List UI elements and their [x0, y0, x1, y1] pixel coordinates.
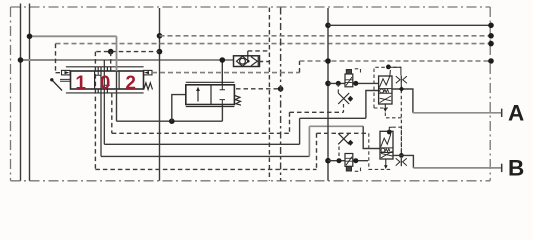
node junction (171.8,121.2): [169, 118, 175, 124]
node junction (328,160.7): [325, 158, 331, 164]
wire A-feed line y=144.3: [104, 143, 299, 145]
wire gray dashed y=35.8 to right edge: [160, 35, 492, 37]
svg-text:2: 2: [125, 73, 136, 94]
port tick A: [501, 109, 503, 117]
PRV1 internal row lines: [379, 89, 392, 94]
wire dashed stub RV1: [355, 69, 361, 75]
orifice O2 left caret: [396, 158, 400, 165]
wire CV1 top port: [247, 51, 249, 61]
relief valve RV2 solenoid tab: [346, 167, 351, 172]
valve V2 plate line bottom: [186, 106, 235, 108]
valve V2 spring: [235, 96, 241, 106]
node junction (491,43.6): [488, 41, 494, 47]
PRV1 internal spring: [379, 70, 390, 88]
relief valve RV1 internals: [345, 80, 353, 83]
PRV2 internal ball circle: [381, 148, 385, 152]
top assembly: wire black y=83.4: [328, 82, 379, 84]
relief valve RV1 mini body: [345, 74, 353, 87]
wire port stub x=98.2 below: [97, 89, 99, 93]
node junction (222.3,60): [220, 57, 226, 63]
wire dashed y=133.3 right segment: [317, 132, 369, 134]
wire gray dashed y=43.6 pilot supply: [56, 43, 492, 45]
orifice O2 right caret: [403, 158, 407, 165]
valve V1 left pilot solenoid arrow: [65, 71, 70, 74]
test point X1 coupling diamond: [348, 96, 354, 102]
valve V2 blocked stub bottom: [220, 100, 225, 105]
PRV2 internal hatch: [381, 151, 392, 157]
node junction (159.5,51.6): [157, 49, 163, 55]
wire black line y=25.3: [328, 24, 491, 26]
svg-text:1: 1: [75, 73, 86, 94]
bottom assembly: wire black y=160.7: [328, 160, 368, 162]
valve V2 body 2/2 way valve: [186, 85, 235, 105]
wire dashed drain PRV1: [400, 84, 402, 156]
valve V1 left pilot box: [62, 70, 71, 75]
node pin inside CV1: [247, 60, 250, 63]
wire dashed vertical to left pilot of valve V1: [56, 44, 62, 73]
valve V1 manual lever: [52, 80, 62, 91]
PRV2 body: [380, 131, 393, 159]
PRV1 internal ball circle: [380, 89, 384, 93]
enclosure boundary bottom: [11, 180, 491, 182]
svg-text:B: B: [508, 156, 524, 181]
wire valve V2 bottom port: [221, 105, 223, 122]
wire A output line from PRV1: [392, 89, 413, 113]
enclosure boundary right: [489, 7, 491, 181]
node junction (159.5,35.8): [157, 33, 163, 39]
check valve CV1 seat bar: [257, 57, 259, 66]
wire dashed PRV2 pilot: [392, 127, 401, 155]
relief valve RV2 mini body: [345, 154, 353, 167]
valve V1 body 4/3 directional valve: [71, 71, 144, 89]
wire port stub x=98.2 above: [97, 67, 99, 72]
valve V1 blocked port stub top: [96, 72, 101, 76]
wire A-feed rise x=365.9 into reducing valve: [366, 91, 379, 119]
node junction (20.5,60): [18, 57, 24, 63]
orifice O2 bar: [400, 158, 402, 166]
PRV1 drain arrow: [384, 104, 386, 110]
node PRV1 pilot tap: [386, 65, 391, 70]
node junction (328,25.3): [325, 23, 331, 29]
wire dashed rise x=289.5: [289, 112, 291, 133]
wire B output line: [393, 155, 413, 168]
test coupling diamond on A output: [399, 86, 404, 91]
valve V1 right pilot box: [144, 70, 153, 75]
wire gray A line: [413, 112, 502, 114]
wire black dashed y=51.6: [96, 51, 159, 53]
wire dashed y=133.3 left segment: [112, 132, 290, 134]
wire A-feed line y=118.3: [300, 117, 366, 119]
svg-text:0: 0: [100, 73, 111, 94]
wire dashed test line y=111.1: [290, 111, 344, 113]
pressure reducing valve PRV1 dashed pilot box: [374, 67, 401, 108]
pressure reducing valve PRV1 body: [379, 76, 392, 104]
relief valve RV1 solenoid tab: [346, 70, 351, 75]
test point X1 dashed drop: [337, 83, 339, 93]
node junction (358,83.4): [353, 81, 358, 86]
relief valve RV2 internals: [345, 158, 353, 161]
node junction (491,61): [488, 58, 494, 64]
valve V1 sandwich plate line bottom: [66, 92, 144, 94]
PRV2 drain arrow: [385, 159, 387, 167]
PRV2 internal row lines: [380, 148, 393, 153]
valve V2 cell divider: [210, 85, 212, 105]
wire B-feed line y=157.3: [101, 155, 309, 157]
node junction (328,83.4): [325, 81, 331, 87]
wire dashed drop x=316.5: [316, 133, 318, 169]
wire drain line y=121.2: [117, 120, 223, 122]
pressure reducing valve PRV2 dashed pilot box: [369, 133, 392, 169]
wire pilot dashed y=72.5 from V1 right pilot: [152, 72, 300, 74]
wire port stub x=107.4 below: [106, 89, 108, 93]
check valve CV1 body: [234, 56, 260, 67]
node junction (328,61): [325, 58, 331, 64]
valve V1 lever bracket lines: [60, 79, 71, 81]
orifice O1 left caret: [396, 76, 400, 83]
valve V2 plate line top: [186, 81, 235, 83]
check valve CV1 seat arrow: [251, 57, 257, 66]
wire valve V2 top port: [221, 60, 223, 85]
node junction (339,160.7): [337, 158, 342, 163]
PRV2 internal spring: [381, 132, 391, 146]
wire dashed CV1 pilot y=50.9: [248, 50, 270, 52]
wire vertical pilot supply x=159.5: [159, 8, 161, 181]
wire dashed x=111.8 under valve V1: [111, 93, 113, 133]
wire B-feed drop x=363.2 into bottom reducing valve: [363, 126, 380, 148]
wire port line x=104.3 from gray bus down through valve: [103, 60, 105, 144]
valve V1 cell divider left: [94, 71, 96, 89]
check valve CV1 diamond: [237, 56, 249, 66]
svg-text:A: A: [508, 101, 524, 126]
wire pilot L to orifice: [388, 67, 401, 75]
enclosure boundary left: [10, 7, 12, 181]
orifice O1 right caret: [403, 76, 407, 83]
test point X2 coupling diamond: [348, 140, 354, 146]
port tick B: [501, 164, 503, 172]
valve V1 blocked port stub bottom: [105, 85, 110, 89]
wire dashed PRV1 drain L: [385, 113, 401, 118]
wire P supply vertical x=20.5: [20, 4, 22, 181]
wire valve V2 pilot dashed y=88.8: [236, 88, 281, 90]
test point X2 dashed rise: [338, 147, 340, 160]
wire gray line y=60: [21, 59, 234, 61]
valve V1 right pilot solenoid arrow: [144, 71, 149, 74]
valve V2 blocked stub top: [220, 85, 225, 90]
PRV1 internal hatch: [380, 96, 391, 103]
check valve CV1 ball: [240, 58, 246, 64]
wire B-feed rise x=309.4: [308, 126, 310, 156]
wire dashed pilot x=110.7 down to valve V1: [110, 52, 112, 72]
node junction (280.6,88.8): [278, 86, 284, 92]
wire dashed drain y=168.6: [95, 168, 316, 170]
wire gray line y=36.3 to port B of valve V1: [30, 35, 117, 37]
wire T return vertical x=29.5: [29, 4, 31, 181]
wire dashed from X1 down: [343, 104, 345, 112]
wire valve V2 left port down: [172, 95, 186, 122]
node junction (338.3,83.4): [336, 81, 341, 86]
node junction (401.4,155.4): [399, 153, 404, 158]
wire port stub x=107.4 above: [106, 67, 108, 72]
PRV2 internal spring W: [385, 149, 390, 152]
wire dashed stub RV2: [355, 166, 361, 172]
wire dashed section line x=280.6: [280, 8, 282, 181]
enclosure boundary top: [11, 6, 491, 8]
wire B-feed line y=126.3: [309, 125, 363, 127]
valve V1 sandwich plate line top: [66, 66, 144, 68]
node junction (110.7,51.6): [108, 49, 114, 55]
wire pilot dashed y=61 to right edge: [300, 60, 492, 62]
wire gray B line: [413, 167, 501, 169]
test point X1 cross: [338, 93, 349, 104]
node junction (491,25.3): [488, 23, 494, 29]
test point X2 cross: [338, 133, 349, 144]
valve V1 cell divider right: [118, 71, 120, 89]
valve V2 flow arrow: [197, 90, 199, 102]
PRV1 internal spring W: [384, 89, 389, 92]
wire dashed drain x=95.4 full height: [94, 52, 96, 170]
node junction (491,35.8): [488, 33, 494, 39]
wire dashed drain vertical x=269.4: [268, 8, 270, 181]
node junction (357,160.7): [353, 158, 358, 163]
node PRV2 pilot tap: [387, 130, 392, 135]
wire port line x=116.5 (B line) through valve: [116, 36, 118, 71]
wire A-feed rise x=299.6: [299, 118, 301, 144]
wire pilot dashed rise x=299.5: [299, 61, 301, 73]
orifice O1 bar: [400, 76, 402, 84]
node junction (29.5,36.3): [27, 34, 33, 40]
wire PRV2 pilot L: [389, 127, 392, 132]
wire supply vertical x=328: [327, 8, 329, 181]
valve V1 right spring: [144, 83, 153, 90]
wire port line x=101 down from valve: [100, 67, 102, 157]
valve V1 lever knob: [50, 78, 53, 81]
wire dashed CV1 outlet y=61.5: [259, 61, 270, 63]
